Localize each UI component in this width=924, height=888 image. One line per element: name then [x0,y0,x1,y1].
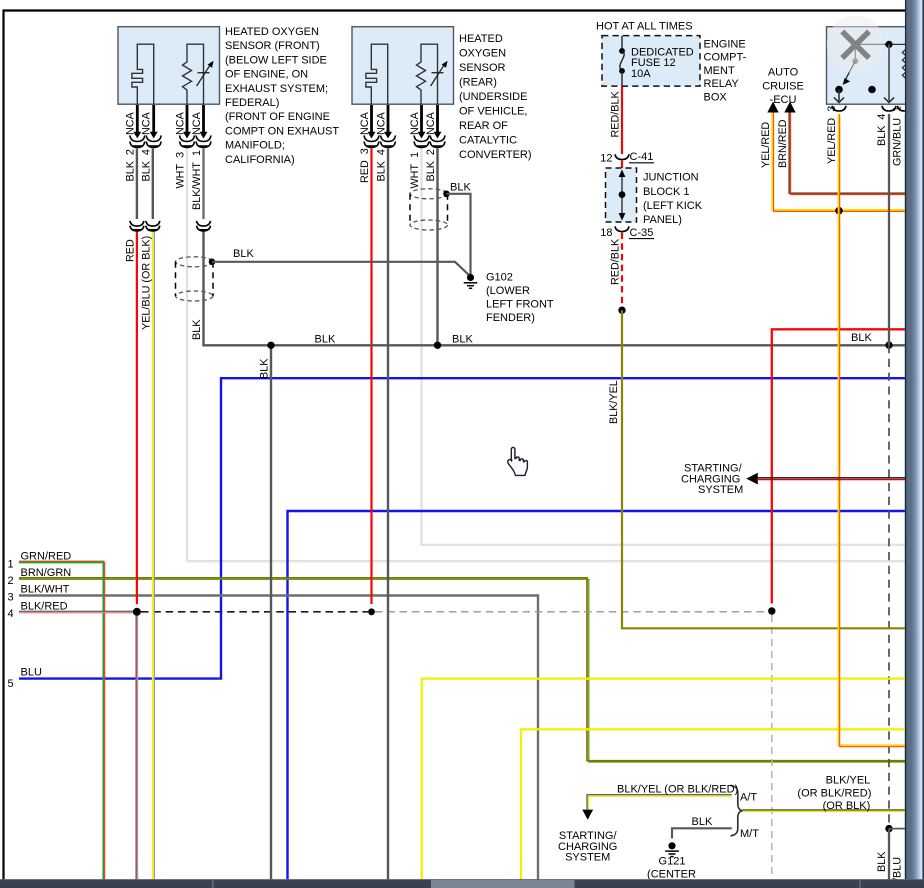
shield symbol rear sensor signal pair [410,189,448,230]
junction dot BLK/RED node x136.9 [133,608,141,616]
svg-text:BLOCK 1: BLOCK 1 [643,186,689,198]
svg-text:M/T: M/T [740,828,759,840]
svg-text:C-35: C-35 [630,227,654,239]
text BLK labels on drains and bus [233,182,872,346]
junction dot BLK bus x437.5 [434,342,441,349]
front sensor pin 2 stub [130,105,145,147]
svg-text:RED/BLK: RED/BLK [609,238,621,285]
mouse hand cursor [508,447,528,475]
svg-text:BLK: BLK [191,319,203,340]
svg-text:(REAR): (REAR) [459,77,497,89]
dedicated fuse 12 dashed box [602,36,700,87]
svg-text:(OR BLK/RED): (OR BLK/RED) [797,787,871,799]
svg-text:NCA: NCA [191,111,203,135]
text HOT AT ALL TIMES [596,21,693,33]
svg-text:BLK: BLK [259,358,271,379]
svg-text:RED/BLK: RED/BLK [609,90,621,137]
wire RED from rear sensor pin3 x371.5 [370,149,372,605]
wire BLK/YEL (OR BLK/RED) A/T branch with arrow to starting system [582,795,731,820]
front sensor pin 1 stub [196,105,211,147]
front sensor pin 4 stub [146,105,161,147]
svg-text:BLK: BLK [692,816,713,828]
svg-text:(OR BLK): (OR BLK) [823,800,871,812]
text connector C-41 pin 12 [600,151,654,164]
wire dashed gray segment x371.5 to x771.8 [375,611,768,613]
close (X) icon overlay [827,16,885,74]
svg-text:BLK 4: BLK 4 [876,114,888,146]
rotated labels NCA front [125,111,204,135]
text block front sensor [225,26,339,166]
svg-text:BLK 4: BLK 4 [376,149,388,181]
text block rear sensor [459,33,532,161]
svg-text:MENT: MENT [704,65,735,77]
wire BLK x889 y828.6 to bottom [888,829,890,880]
text ground G121 [647,856,696,881]
wire RED right segment: corner x771.8 y329 to edge [772,329,905,603]
svg-text:(UNDERSIDE: (UNDERSIDE [459,91,527,103]
svg-text:BLK: BLK [452,334,473,346]
svg-text:4: 4 [8,608,14,620]
bottom taskbar [0,880,924,888]
svg-text:G102: G102 [486,272,513,284]
inline connector on front pin4 wire [146,221,160,231]
arrow to AUTO CRUISE-ECU (YEL/RED) [767,102,778,113]
wire BLU circuit 5: left entry y678.6 up at x221 right at y378 [19,378,905,678]
rotated labels NCA rear [359,111,437,135]
svg-text:NCA: NCA [141,111,153,135]
svg-text:JUNCTION: JUNCTION [643,172,699,184]
wire YEL/RED auto cruise x773 down right at y210.8 to edge [772,112,905,211]
svg-text:BLK: BLK [876,851,888,872]
wire RED/BLK dashed from C-35 to splice [621,233,623,307]
svg-text:SENSOR (FRONT): SENSOR (FRONT) [225,40,320,52]
junction dot red/dashed x771.8 [768,607,775,614]
svg-text:C-41: C-41 [630,151,654,163]
svg-text:OXYGEN: OXYGEN [459,48,506,60]
front sensor pin 3 stub [180,105,195,147]
arrow to AUTO CRUISE-ECU (BRN/RED) [784,102,795,113]
svg-text:12: 12 [600,153,612,165]
wire BLK/YEL output from brace to edge [743,810,905,811]
svg-text:RED 3: RED 3 [359,148,371,183]
rear sensor pin 4 stub [381,105,396,147]
heated oxygen sensor REAR box [352,27,454,105]
junction dot RED rear x371.5 [368,608,375,615]
rotated labels RED/BLK and BLK/YEL [608,90,621,424]
svg-text:OF VEHICLE,: OF VEHICLE, [459,106,527,118]
vertical scrollbar [905,0,924,888]
svg-text:MANIFOLD;: MANIFOLD; [225,140,285,152]
wire BLK rear sensor pin2 x437.5 down to bus [436,149,438,346]
wire BLK/YEL from splice down x622 right at y628.3 to edge [622,310,905,628]
heated oxygen sensor FRONT box [118,27,220,105]
text ground G102 [486,272,554,325]
svg-text:10A: 10A [631,68,651,80]
svg-text:GRN/BLU 1: GRN/BLU 1 [892,106,904,166]
wire RED/BLK short into junction block [621,161,623,169]
svg-text:18: 18 [600,227,612,239]
svg-text:RELAY: RELAY [704,78,740,90]
svg-text:GRN/RED: GRN/RED [21,551,72,563]
svg-text:BLK/WHT 1: BLK/WHT 1 [191,150,203,210]
junction dot BLK bus x889 [885,341,892,348]
svg-text:BLK/WHT: BLK/WHT [21,584,70,596]
svg-text:(LOWER: (LOWER [486,285,530,297]
svg-text:BLK: BLK [315,334,336,346]
svg-text:OF ENGINE, ON: OF ENGINE, ON [225,69,308,81]
rear sensor pin 3 stub [364,105,379,147]
rotated pin labels front sensor [125,149,204,210]
svg-text:CALIFORNIA): CALIFORNIA) [225,154,295,166]
wire BLK stub right from x889 y828.6 [889,828,905,830]
svg-text:BLK 4: BLK 4 [141,149,153,181]
wire RED/BLK from fuse to C-41 [621,86,623,154]
svg-text:COMPT-: COMPT- [704,52,747,64]
wire BLU branch: x287.5 from bottom up to y511 right to edge [288,511,906,880]
wire BLK bus y345.3 from x203.5 corner to right edge [204,231,906,345]
wire BLK/RED circuit 4: right to junction at x136.9 and down [19,611,138,880]
svg-text:CRUISE: CRUISE [762,81,804,93]
junction dot x889 y828.6 [885,825,892,832]
wire GRN/RED circuit 1 [19,561,105,880]
rear sensor pin 2 stub [430,105,445,147]
junction dot BLK bus x271 [267,342,274,349]
svg-text:HEATED OXYGEN: HEATED OXYGEN [225,26,319,38]
wire GRN/BLU relay pin1 x904.5 down (hidden by scrollbar) [905,114,907,880]
svg-text:COMPT ON EXHAUST: COMPT ON EXHAUST [225,125,339,137]
svg-text:SYSTEM: SYSTEM [698,484,743,496]
svg-text:G121: G121 [659,856,686,868]
wire BRN/RED auto cruise x790 down right at y193.8 to edge [789,112,905,195]
svg-text:CONVERTER): CONVERTER) [459,149,532,161]
text junction block 1 [643,172,703,227]
text fuse [631,47,694,80]
svg-text:FEDERAL): FEDERAL) [225,97,279,109]
rotated pin labels rear sensor [359,148,437,188]
wire YEL x421.8: bottom up to y678.6 then right to edge [422,679,905,880]
svg-text:WHT 1: WHT 1 [409,152,421,189]
rotated labels auto cruise wires [760,119,789,168]
svg-text:(LEFT KICK: (LEFT KICK [643,200,703,212]
rotated wire labels below connectors [125,236,271,379]
text auto cruise ecu [762,67,804,107]
inline connector on front pin2 wire [130,221,144,231]
svg-text:BLK 2: BLK 2 [125,149,137,181]
connector C-35 cup [615,226,629,231]
rotated labels bottom right [876,851,904,888]
svg-text:YEL/RED 3: YEL/RED 3 [826,106,838,164]
svg-text:SENSOR: SENSOR [459,62,506,74]
relay pin connectors [832,106,912,111]
shield drain BLK front to G102 [209,259,471,277]
fuse 12 element [619,36,625,86]
junction dot YEL/RED x839 y210.8 [835,207,843,215]
text BLK/YEL (OR BLK/RED) (OR BLK) right [797,775,871,812]
svg-text:NCA: NCA [409,111,421,135]
wire BLK rear sensor pin4 x388 to bottom [387,149,389,881]
text starting/charging system (bottom arrow) [558,830,617,863]
svg-text:(FRONT OF ENGINE: (FRONT OF ENGINE [225,111,330,123]
svg-text:REAR OF: REAR OF [459,120,508,132]
svg-text:BLK/RED: BLK/RED [21,600,68,612]
svg-text:AUTO: AUTO [768,67,799,79]
svg-text:BOX: BOX [704,91,728,103]
svg-text:YEL/RED: YEL/RED [760,122,772,168]
svg-text:SYSTEM: SYSTEM [565,851,610,863]
svg-text:-ECU: -ECU [770,94,797,106]
junction block 1 dashed box [606,168,637,222]
wire BLK/RED dashed segment to x371.5 [141,611,368,613]
wire BLK M/T from G121 to brace [672,828,732,838]
svg-text:EXHAUST SYSTEM;: EXHAUST SYSTEM; [225,83,328,95]
shield symbol front sensor signal pair [176,257,214,301]
wire WHT front sensor pin3 (x187 down, right at y561 to edge) [187,148,905,562]
ground G102 [464,274,478,288]
inline connector on front pin1 wire [197,221,211,231]
wire YEL x521: bottom up to y729.3 then right to edge [521,729,905,880]
junction block internal arrow line [619,170,626,221]
text starting/charging system (right arrow) [681,463,743,497]
wire dashed light gray below x771.8 junction to bottom [771,615,773,880]
brace A/T M/T merge [731,785,743,836]
svg-text:BLK/YEL (OR BLK/RED): BLK/YEL (OR BLK/RED) [617,784,738,796]
wire BLK/WHT circuit 3: right at y595.5, down at x538 [19,596,538,881]
svg-text:BLK 2: BLK 2 [425,149,437,181]
rotated labels relay pins [826,106,904,166]
svg-text:5: 5 [8,678,14,690]
svg-text:(BELOW LEFT SIDE: (BELOW LEFT SIDE [225,54,327,66]
connector C-41 cup [615,154,629,159]
svg-text:BLK/YEL: BLK/YEL [826,775,871,787]
svg-text:CATALYTIC: CATALYTIC [459,135,517,147]
wire BLK/WHT front pin1 between connectors [202,149,204,220]
text A/T M/T labels [617,784,759,840]
svg-text:BRN/GRN: BRN/GRN [21,567,72,579]
text circuit 1-5 labels [8,551,72,691]
svg-text:BLU: BLU [21,667,42,679]
svg-text:ENGINE: ENGINE [704,39,746,51]
svg-text:RED: RED [125,239,137,262]
ground G121 [665,842,679,856]
splice dot x622 y310 [618,307,625,314]
svg-text:BLK: BLK [233,248,254,260]
arrow to STARTING/CHARGING SYSTEM (right side) [746,473,905,485]
svg-text:1: 1 [8,559,14,571]
svg-text:BLK: BLK [851,332,872,344]
text connector C-35 pin 18 [600,227,654,239]
wire RED from front sensor pin2 x136.9 [136,231,138,604]
svg-text:A/T: A/T [740,792,757,804]
text engine compartment relay box [704,39,747,104]
svg-text:(CENTER: (CENTER [647,869,696,881]
wire BLK from bus junction x271 to bottom [270,345,272,880]
svg-text:NCA: NCA [376,111,388,135]
relay box top right [827,27,911,105]
wire YEL/RED relay pin3 x839 down, right at y746 to edge [839,114,906,747]
svg-text:PANEL): PANEL) [643,214,682,226]
svg-text:HEATED: HEATED [459,33,503,45]
wire BRN/GRN circuit 2: right at y578 down at x587.7, right at y761 to edge [19,578,905,762]
svg-text:2: 2 [8,575,14,587]
wire YEL/BLU (OR BLK) from front sensor pin4 [153,231,155,880]
wire dashed dark vertical x889 from BLK bus down to dot y828.6 [888,345,890,825]
svg-text:NCA: NCA [425,111,437,135]
svg-text:BRN/RED: BRN/RED [777,119,789,168]
svg-text:BLK/YEL: BLK/YEL [608,380,620,424]
svg-text:NCA: NCA [359,111,371,135]
svg-text:HOT AT ALL TIMES: HOT AT ALL TIMES [596,21,693,33]
wire BLK front pin4 between connectors [152,149,154,220]
svg-text:3: 3 [8,592,14,604]
svg-text:YEL/BLU (OR BLK): YEL/BLU (OR BLK) [141,236,153,330]
wire BLK front pin2 between connectors [136,149,138,220]
svg-text:WHT 3: WHT 3 [175,152,187,189]
svg-text:NCA: NCA [175,111,187,135]
shield drain BLK rear to G102 [443,191,470,275]
svg-text:NCA: NCA [125,111,137,135]
svg-text:FENDER): FENDER) [486,312,535,324]
svg-text:BLK: BLK [450,182,471,194]
rear sensor pin 1 stub [414,105,429,147]
svg-text:LEFT FRONT: LEFT FRONT [486,299,554,311]
wire BLK relay pin4 x889 down to BLK bus [888,114,890,345]
wire WHT rear sensor pin1 (x421.5 down, right at y544.8 to edge) [422,148,906,545]
